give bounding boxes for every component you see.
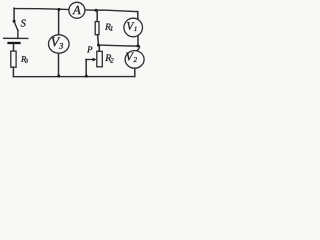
label R1 bbox=[105, 24, 111, 30]
battery short thick plate bbox=[7, 42, 20, 44]
wire V3 bottom lead bbox=[58, 53, 60, 76]
node junction V1 bottom bbox=[136, 44, 139, 47]
wire R2 top lead bbox=[98, 45, 100, 51]
battery long plate bbox=[4, 37, 28, 39]
voltmeter V3 bbox=[49, 35, 70, 53]
wire V2 bottom lead bbox=[134, 68, 136, 76]
wire bottom rail bbox=[13, 76, 134, 78]
wire left drop to switch bbox=[13, 8, 15, 20]
potentiometer R2 box bbox=[97, 51, 103, 67]
wire wiper lead down bbox=[85, 60, 87, 77]
wire V1 top lead bbox=[137, 12, 139, 20]
resistor R1 box bbox=[95, 22, 99, 35]
ammeter A bbox=[69, 2, 85, 18]
label R3 bbox=[21, 56, 26, 62]
node junction V3 top bbox=[58, 8, 61, 11]
potentiometer wiper arrow bbox=[86, 59, 93, 61]
wire V2 top lead (corner) bbox=[136, 46, 139, 51]
wire top rail bbox=[14, 9, 137, 12]
wire R3 to bottom rail bbox=[12, 67, 14, 76]
label P bbox=[87, 47, 92, 53]
wire V3 top lead bbox=[58, 9, 60, 35]
wire R1 bottom lead bbox=[97, 35, 100, 45]
voltmeter V1 bbox=[124, 18, 143, 37]
node junction wiper bottom bbox=[85, 75, 88, 78]
wire battery bottom post bbox=[13, 44, 15, 51]
node junction R1 top bbox=[95, 9, 98, 12]
voltmeter V2 bbox=[125, 51, 144, 69]
wire V1 bottom lead bbox=[137, 36, 139, 46]
wire R1 top lead bbox=[96, 10, 98, 21]
switch S blade bbox=[14, 22, 18, 30]
label S bbox=[21, 20, 26, 27]
switch S hinge dot bbox=[13, 20, 16, 23]
wire middle rail bbox=[99, 45, 140, 46]
resistor R3 box bbox=[11, 51, 16, 67]
label R2 bbox=[105, 55, 111, 62]
node junction V3 bottom bbox=[57, 75, 60, 78]
node junction middle-left bbox=[97, 44, 100, 47]
wire switch to battery bbox=[17, 30, 19, 38]
